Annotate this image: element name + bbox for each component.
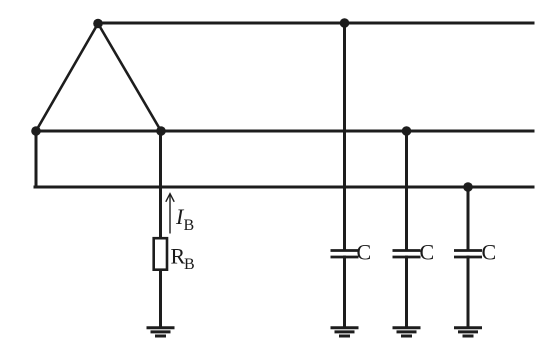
node C1 tap on phase A bbox=[340, 18, 350, 28]
transformer delta winding right side bbox=[98, 24, 161, 132]
svg-text:C: C bbox=[482, 240, 497, 265]
ground below C3 bbox=[454, 328, 482, 336]
svg-text:C: C bbox=[357, 240, 372, 265]
wire R_B branch upper segment bbox=[159, 131, 162, 238]
wire capacitor C1 branch upper segment bbox=[343, 23, 346, 250]
node at delta bottom-left on phase B bbox=[31, 126, 41, 136]
wire phase A (top horizontal) bbox=[98, 22, 533, 25]
ground below C2 bbox=[393, 328, 421, 336]
node at delta bottom-right on phase B bbox=[156, 126, 166, 136]
wire phase B (middle horizontal) bbox=[36, 130, 533, 133]
wire phase C (bottom horizontal) bbox=[35, 186, 533, 189]
node at delta apex on phase A bbox=[93, 19, 103, 29]
ground below R_B bbox=[147, 328, 175, 336]
node C3 tap on phase C bbox=[463, 182, 473, 192]
transformer delta winding left side bbox=[36, 24, 98, 132]
wire capacitor C3 branch lower segment bbox=[467, 257, 470, 327]
wire capacitor C1 branch lower segment bbox=[343, 257, 346, 327]
capacitor C3 plates bbox=[454, 251, 482, 258]
wire capacitor C2 branch lower segment bbox=[405, 257, 408, 327]
ground below C1 bbox=[331, 328, 359, 336]
current arrow I_B bbox=[166, 194, 174, 234]
resistor R_B body bbox=[154, 238, 167, 270]
wire R_B branch lower segment bbox=[159, 270, 162, 327]
wire left jog from node B down to phase C wire bbox=[35, 131, 38, 187]
capacitor C2 plates bbox=[393, 251, 421, 258]
wire capacitor C2 branch upper segment bbox=[405, 131, 408, 250]
svg-text:B: B bbox=[184, 256, 195, 273]
wire capacitor C3 branch upper segment bbox=[467, 187, 470, 250]
node C2 tap on phase B bbox=[402, 126, 412, 136]
svg-text:B: B bbox=[184, 217, 195, 234]
capacitor C1 plates bbox=[331, 251, 359, 258]
svg-text:C: C bbox=[420, 240, 435, 265]
